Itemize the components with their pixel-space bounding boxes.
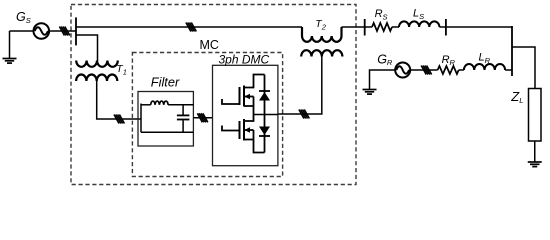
converter box 3ph DMC	[213, 65, 278, 165]
wire filter to DMC	[193, 117, 212, 119]
ground (ZL)	[528, 162, 542, 167]
transistor Q1 gate bar	[239, 87, 241, 105]
filter input node vertical	[140, 104, 142, 133]
inductor LS	[399, 21, 439, 27]
transistor Q1 drain lead	[244, 75, 265, 88]
transformer T1 primary winding	[76, 61, 118, 67]
svg-text:T2: T2	[315, 18, 326, 31]
svg-text:LR: LR	[479, 52, 491, 65]
inductor LR	[464, 64, 505, 70]
transistor Q2 channel bar	[243, 119, 245, 141]
wire DMC output to T2	[278, 57, 322, 115]
svg-text:ZL: ZL	[510, 89, 523, 105]
transformer T1 secondary winding	[76, 75, 117, 82]
transistor Q2 (bottom MOSFET) gate lead	[222, 126, 240, 131]
break marks on T1-filter wire	[114, 115, 124, 124]
resistor RR	[438, 66, 459, 74]
node bus bar	[75, 17, 77, 45]
svg-text:RR: RR	[442, 54, 456, 67]
ground (GS)	[3, 31, 17, 63]
ground (GR)	[363, 70, 396, 94]
filter inductor Lf	[151, 101, 168, 105]
transformer T2 primary winding (top, in series with line)	[302, 27, 342, 42]
wire source GS to bus node	[49, 30, 77, 32]
wire T1 secondary down and right to filter	[97, 81, 141, 119]
svg-text:RS: RS	[375, 8, 388, 21]
wire bus branch to T1	[76, 35, 98, 61]
svg-text:GS: GS	[16, 10, 31, 25]
resistor RS	[372, 23, 392, 31]
wire LR to rail	[505, 69, 512, 71]
filter bottom wire	[141, 131, 193, 133]
wire RR to LR	[459, 69, 464, 71]
transistor Q1 (top MOSFET) gate lead	[222, 99, 240, 104]
transistor Q2 gate bar	[239, 121, 241, 139]
mid node wire to box edge (output of leg)	[254, 114, 278, 116]
break marks on GR wire	[421, 66, 431, 75]
transistor Q1 source lead	[244, 106, 254, 115]
diode D1 (top, anti-parallel)	[264, 75, 266, 115]
wire GS ground to source	[10, 30, 34, 32]
svg-text:3ph DMC: 3ph DMC	[219, 52, 270, 66]
svg-text:Filter: Filter	[151, 75, 180, 90]
svg-text:LS: LS	[413, 8, 424, 21]
wire ZL to ground	[534, 141, 536, 162]
capacitor Cf	[177, 105, 190, 133]
transistor Q1 body arrow	[244, 96, 254, 98]
svg-text:MC: MC	[200, 38, 219, 52]
break marks on filter-DMC wire	[197, 113, 207, 122]
source GR	[395, 63, 410, 78]
wire GR to RR	[410, 69, 438, 71]
transistor Q2 source lead	[244, 140, 265, 153]
wire rail to load ZL	[512, 47, 535, 89]
node tick left of RS	[364, 19, 366, 36]
transistor Q2 body arrow	[244, 129, 254, 131]
wire top (bus to T2)	[76, 26, 302, 28]
load ZL box	[529, 89, 542, 142]
filter top wire	[141, 104, 151, 106]
transistor Q1 channel bar	[243, 86, 245, 107]
break marks on DMC-T2 wire	[299, 110, 309, 119]
diode D2 (bottom, anti-parallel)	[264, 115, 266, 153]
node right rail	[511, 26, 513, 76]
transformer T2 secondary winding	[301, 50, 342, 56]
wire T2 to right rail	[342, 26, 373, 28]
system boundary dashed box	[71, 5, 356, 185]
transistor Q2 drain lead	[244, 115, 254, 122]
svg-text:T1: T1	[116, 63, 127, 76]
svg-text:GR: GR	[377, 52, 393, 67]
break marks (3-phase) on GS wire	[59, 27, 69, 36]
source GS	[34, 23, 50, 39]
filter box	[138, 92, 193, 147]
break marks on top wire	[186, 23, 196, 32]
MC dashed box	[132, 53, 282, 177]
node tick right of LS	[445, 19, 447, 36]
